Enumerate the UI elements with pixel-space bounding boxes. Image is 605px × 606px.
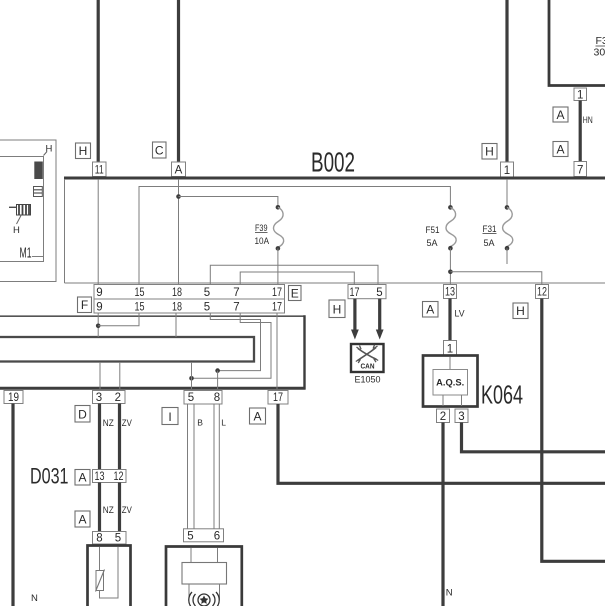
wire to B002 pin 1 (505, 0, 508, 162)
horn symbol (189, 592, 219, 606)
svg-text:17: 17 (350, 287, 360, 299)
svg-text:5A: 5A (427, 238, 439, 249)
arrow wire to CAN left (351, 299, 359, 340)
wire F17 through to pin 17 (276, 313, 278, 389)
B002 left edge (64, 179, 66, 283)
svg-text:A: A (426, 303, 434, 317)
svg-text:LV: LV (455, 309, 466, 320)
wire to B002 pin 11 (97, 0, 100, 162)
branch unit box (lower left) (0, 315, 306, 389)
svg-text:1: 1 (504, 165, 510, 177)
B002 top edge (64, 177, 605, 180)
pin 1 (top right) (574, 88, 587, 102)
svg-text:A: A (556, 143, 564, 157)
pin 19 (4, 391, 23, 405)
svg-text:F: F (81, 298, 88, 312)
svg-text:NZ: NZ (103, 505, 114, 516)
pin 1 (501, 162, 514, 177)
svg-text:7: 7 (233, 302, 239, 314)
wire ZV lower (118, 483, 121, 532)
fuse label F.. 30A (clipped) (594, 35, 605, 59)
connector label A (553, 107, 568, 122)
connector label F (78, 297, 92, 313)
wire pair L (213, 404, 215, 529)
connector label E (289, 286, 302, 301)
wire F5 wrap to pin 8 (210, 313, 260, 371)
svg-text:6: 6 (214, 530, 220, 542)
svg-text:1: 1 (447, 344, 453, 356)
busbar inside branch unit (0, 337, 254, 362)
M1 clamp (striped) (34, 187, 43, 197)
svg-text:H: H (485, 145, 494, 159)
svg-text:I: I (168, 410, 171, 424)
svg-text:12: 12 (537, 287, 547, 299)
wire busbar to pin 5 (191, 362, 193, 389)
wire ZV (118, 404, 121, 470)
svg-text:ZV: ZV (122, 505, 133, 516)
wire fuse F39 to E17 (277, 248, 279, 284)
connector label A (75, 470, 90, 486)
M1 inner box (0, 157, 44, 262)
svg-text:17: 17 (272, 302, 282, 314)
central pins 17 5 of B002 (348, 285, 386, 300)
wire busbar to pin 3 (99, 362, 101, 389)
svg-text:7: 7 (233, 287, 239, 299)
svg-text:K064: K064 (481, 380, 523, 410)
svg-text:19: 19 (8, 392, 19, 404)
node branch on A wire (176, 194, 181, 199)
svg-text:5: 5 (115, 533, 121, 545)
pin 11 (93, 162, 107, 177)
svg-text:9: 9 (96, 302, 102, 314)
wire N from pin 19 (11, 404, 14, 606)
wire down to pin 8 (217, 371, 219, 389)
svg-text:H: H (516, 304, 525, 318)
wire pin11 to E9 (97, 179, 99, 285)
B002 bottom edge (65, 282, 605, 284)
wire NZ lower (98, 483, 101, 532)
svg-text:11: 11 (95, 165, 104, 177)
pin 13 of B002 (444, 285, 457, 299)
connector label A (75, 511, 90, 527)
wire to B002 pin A (177, 0, 180, 162)
svg-text:A: A (175, 165, 183, 177)
svg-text:M1: M1 (20, 245, 32, 262)
svg-text:18: 18 (172, 302, 182, 314)
svg-text:17: 17 (273, 392, 283, 404)
svg-text:5: 5 (376, 287, 382, 299)
svg-text:H: H (79, 144, 88, 158)
svg-text:5: 5 (187, 530, 193, 542)
wire busbar to pin 2 (119, 362, 121, 389)
siren pins 5 6 (184, 529, 224, 543)
svg-text:8: 8 (96, 533, 102, 545)
svg-text:5: 5 (188, 392, 194, 404)
wire branch to fuse F39 (179, 197, 278, 208)
M1 terminal label H (44, 144, 53, 156)
svg-text:A.Q.S.: A.Q.S. (436, 378, 464, 388)
svg-text:5: 5 (204, 302, 210, 314)
wire HN pin1 to pin7 (579, 101, 582, 163)
wire F9 to busbar (97, 313, 99, 337)
svg-text:C: C (155, 144, 164, 158)
svg-text:B002: B002 (311, 147, 355, 178)
pin 17 (branch box) (268, 391, 288, 405)
pin A (172, 162, 186, 177)
svg-text:8: 8 (214, 392, 220, 404)
earth unit M1 outer box (0, 140, 56, 282)
wire pin 17 down and right (278, 404, 605, 483)
K064 pin 2 (437, 409, 450, 423)
wire N from K064 pin 2 to bottom (441, 423, 444, 606)
connector label D (75, 406, 90, 423)
svg-text:5: 5 (204, 287, 210, 299)
svg-text:A: A (78, 471, 86, 485)
svg-text:5A: 5A (484, 238, 496, 249)
svg-text:7: 7 (577, 165, 583, 177)
svg-text:E: E (291, 287, 299, 301)
svg-text:2: 2 (115, 392, 121, 404)
pins 3 2 (93, 391, 126, 405)
connector row F (94, 299, 285, 314)
arrow wire to CAN right (376, 299, 384, 340)
svg-text:NZ: NZ (103, 418, 114, 429)
svg-text:N: N (446, 588, 453, 599)
connector label I (162, 408, 178, 425)
wire branch to pin 12 (450, 272, 541, 285)
wire F51 to pin 13 (449, 248, 451, 284)
connector label A (250, 408, 266, 424)
CAN node box E1050 (351, 344, 384, 372)
svg-text:N: N (31, 593, 38, 604)
svg-text:L: L (221, 418, 226, 428)
svg-text:F51: F51 (426, 225, 440, 236)
svg-text:17: 17 (272, 287, 282, 299)
twisted pair from pins 5 8 (184, 391, 222, 405)
fuse F31 5A (483, 205, 513, 250)
wire pinA to E18 (178, 179, 180, 285)
wire E5 to CAN pin 5 (210, 265, 378, 284)
wire from pin 12 down right (542, 299, 605, 562)
connector label H (513, 303, 528, 319)
wire F18 to busbar (175, 313, 177, 337)
sensor unit (left, variable resistor) (88, 546, 131, 606)
M1 stud (dark) (34, 162, 43, 180)
node F51/12 branch (448, 270, 453, 275)
svg-text:13: 13 (445, 287, 455, 299)
fuse F51 5A (426, 205, 457, 250)
connector label H (76, 143, 91, 159)
K064 pin 3 (455, 409, 468, 423)
wire stub below F31 (506, 248, 508, 264)
svg-text:A: A (253, 410, 261, 424)
wire from K064 pin 3 right (462, 423, 605, 452)
connector D031 pins 13 12 (93, 470, 127, 484)
sensor pins 8 5 (93, 532, 127, 545)
svg-text:F3: F3 (596, 35, 605, 47)
pin 7 (574, 162, 587, 177)
svg-text:D031: D031 (30, 464, 69, 489)
svg-text:E1050: E1050 (355, 375, 381, 386)
svg-text:H: H (46, 144, 53, 155)
svg-text:B: B (197, 418, 203, 428)
svg-text:A: A (556, 108, 564, 122)
M1 leader to H (17, 216, 22, 225)
K064 pin 1 (444, 341, 457, 356)
svg-text:10A: 10A (255, 236, 270, 247)
svg-text:15: 15 (135, 302, 145, 314)
svg-text:13: 13 (95, 471, 105, 483)
svg-text:D: D (78, 408, 87, 422)
wire pin1 to fuse F31 (506, 179, 508, 207)
wire E15 up and right to F51 (139, 187, 450, 285)
svg-text:A: A (78, 513, 86, 527)
wire NZ (98, 404, 101, 470)
svg-text:2: 2 (440, 411, 446, 423)
svg-text:1: 1 (577, 90, 583, 102)
node pin8 (215, 368, 220, 373)
siren unit (right, horn) (166, 547, 242, 606)
svg-text:18: 18 (172, 287, 182, 299)
box corner top right (fuse box) (549, 0, 605, 86)
connector label A (K064 feed) (423, 302, 439, 318)
svg-text:3: 3 (96, 392, 102, 404)
M1 cable terminal (striped) (9, 205, 31, 216)
wire LV pin13 to K064 (448, 299, 451, 341)
svg-text:CAN: CAN (361, 364, 375, 371)
svg-text:12: 12 (114, 471, 124, 483)
svg-text:15: 15 (135, 287, 145, 299)
node 9/15 join (96, 324, 101, 329)
connector label H (482, 144, 497, 160)
connector label H (329, 300, 345, 318)
connector label A (553, 142, 568, 157)
wire E7 to CAN pin 17 (240, 272, 354, 285)
wire F15 join (98, 313, 139, 326)
svg-text:ZV: ZV (122, 418, 133, 429)
pin 12 of B002 (536, 285, 549, 299)
connector row E (94, 285, 285, 300)
svg-text:9: 9 (96, 287, 102, 299)
svg-text:H: H (13, 225, 20, 236)
wire pair B (187, 404, 189, 529)
control unit K064 (423, 356, 478, 407)
svg-text:H: H (333, 303, 342, 317)
node pin5 (189, 376, 194, 381)
connector label C (153, 142, 167, 158)
svg-text:30A: 30A (594, 47, 605, 59)
wire F7 wrap to pin 5 (192, 313, 272, 378)
svg-text:3: 3 (458, 411, 464, 423)
svg-text:HN: HN (583, 115, 593, 126)
fuse F39 10A (255, 205, 284, 251)
